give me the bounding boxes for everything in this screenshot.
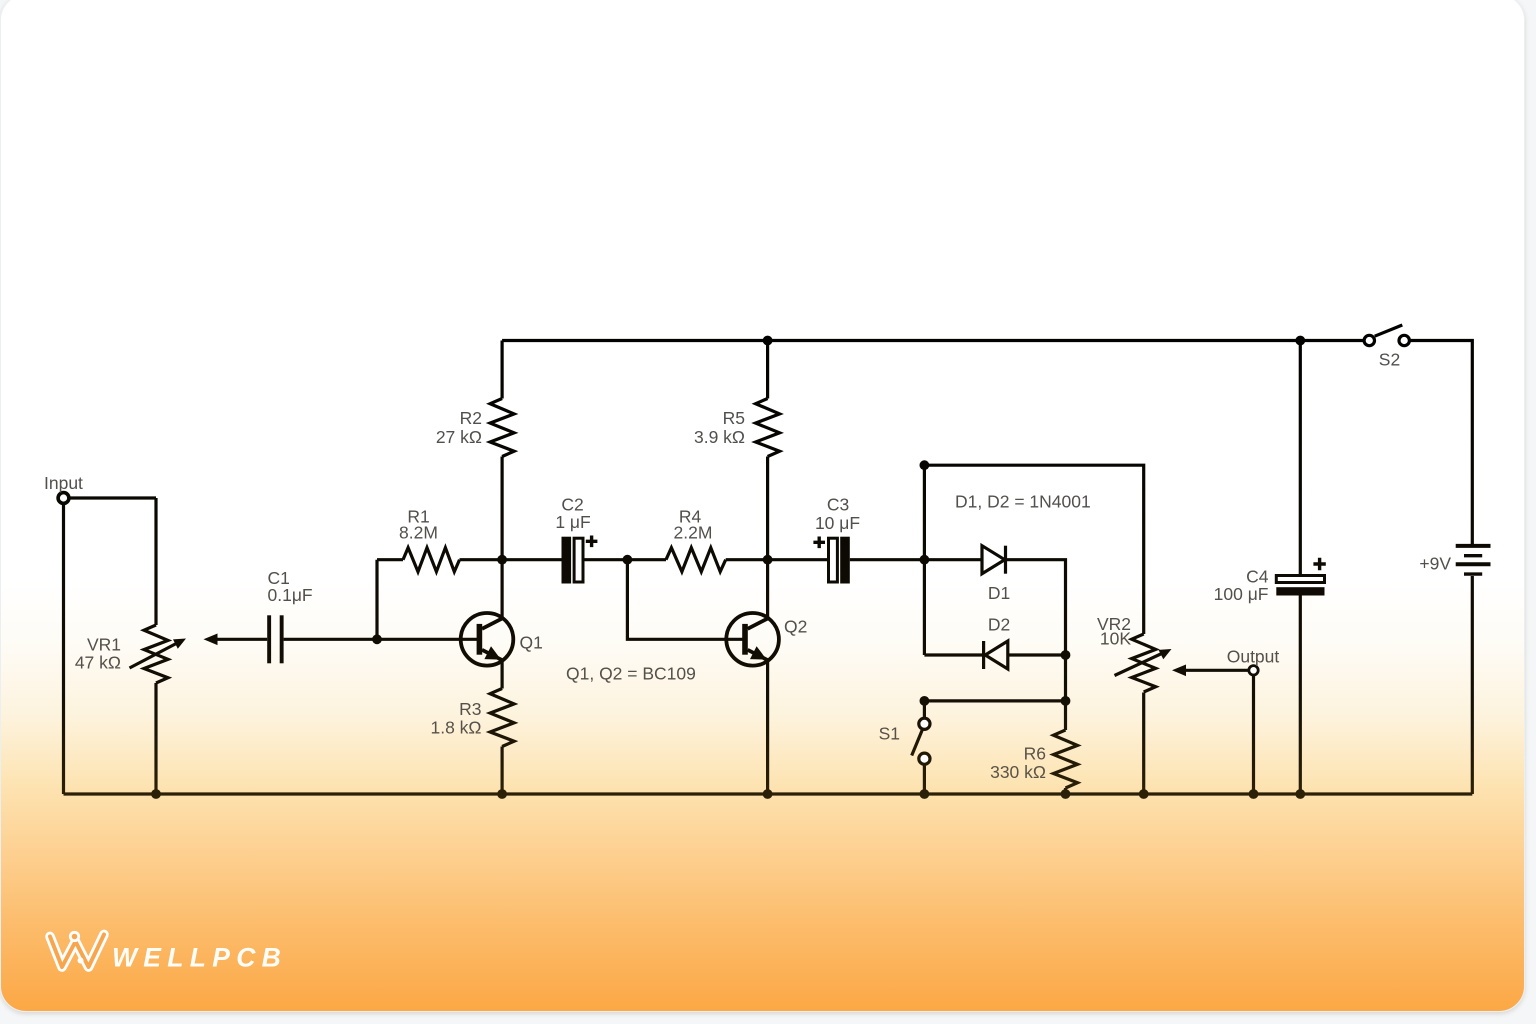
- svg-text:Q1: Q1: [520, 633, 543, 653]
- capacitor C2: [555, 495, 597, 584]
- wire node to Q1 collector: [501, 560, 504, 619]
- WellPCB logo text: [112, 943, 287, 973]
- label D1 D2 type: [955, 492, 1091, 512]
- node S1 top: [920, 696, 930, 706]
- wire C1 to Q1 base: [284, 638, 477, 641]
- wire input down left side: [62, 504, 65, 794]
- resistor R3: [430, 689, 514, 795]
- svg-text:Output: Output: [1227, 647, 1280, 667]
- capacitor C1: [267, 568, 312, 663]
- node R4 / R5 / C3: [763, 555, 773, 565]
- wire C4 to rail: [1299, 596, 1302, 795]
- node R1 / R2 / C2: [497, 555, 507, 565]
- capacitor C3: [813, 495, 860, 584]
- svg-text:R3: R3: [459, 699, 481, 719]
- switch S2: [1364, 325, 1409, 370]
- node S1 bottom: [920, 789, 930, 799]
- node S1 row right: [1061, 696, 1071, 706]
- wire node to Q2 collector: [766, 560, 769, 619]
- svg-text:0.1μF: 0.1μF: [268, 585, 313, 605]
- svg-text:D2: D2: [988, 615, 1010, 635]
- wire top rail to C4: [1299, 341, 1302, 575]
- wire VR1 wiper to C1: [204, 634, 268, 646]
- label Q1 Q2 type: [566, 664, 696, 684]
- node C4 bottom: [1295, 789, 1305, 799]
- node Q2 emitter bottom: [763, 789, 773, 799]
- svg-text:Input: Input: [44, 473, 83, 493]
- node R3 bottom: [497, 789, 507, 799]
- wire node B down to D2: [923, 560, 926, 655]
- wire VR2 wiper to output: [1172, 665, 1249, 677]
- svg-text:2.2M: 2.2M: [674, 523, 713, 543]
- svg-text:Q1, Q2 = BC109: Q1, Q2 = BC109: [566, 664, 696, 684]
- node VR2 bottom: [1139, 789, 1149, 799]
- WellPCB logo mark: [50, 932, 104, 967]
- potentiometer VR2: [1097, 614, 1172, 794]
- capacitor C4: [1214, 558, 1326, 604]
- wire C3 to node B: [850, 558, 925, 561]
- transistor Q1: [461, 613, 543, 666]
- svg-text:R5: R5: [723, 408, 745, 428]
- input terminal: [44, 473, 83, 503]
- svg-text:47 kΩ: 47 kΩ: [75, 653, 121, 673]
- transistor Q2: [726, 613, 807, 666]
- wire battery to ground rail: [1471, 576, 1474, 794]
- output terminal: [1227, 647, 1280, 676]
- svg-text:S2: S2: [1379, 350, 1400, 370]
- node A (Q2 base node): [623, 555, 633, 565]
- wire Q2 emitter to rail: [766, 660, 769, 794]
- svg-text:WELLPCB: WELLPCB: [112, 943, 287, 973]
- wire top rail: [502, 339, 1364, 342]
- svg-text:R6: R6: [1024, 744, 1046, 764]
- svg-text:100 μF: 100 μF: [1214, 584, 1269, 604]
- svg-text:1.8 kΩ: 1.8 kΩ: [430, 718, 481, 738]
- svg-text:Q2: Q2: [784, 617, 807, 637]
- svg-text:C3: C3: [827, 495, 849, 515]
- wire D1 to right corner: [1006, 560, 1066, 655]
- svg-text:10 μF: 10 μF: [815, 513, 860, 533]
- wire node to C3: [768, 558, 827, 561]
- wire node A to Q2 base: [627, 560, 742, 640]
- svg-text:+9V: +9V: [1419, 554, 1451, 574]
- wire node B up to VR2 top: [924, 465, 1143, 634]
- potentiometer VR1: [75, 498, 186, 794]
- wire S2 to battery: [1409, 341, 1472, 545]
- node R6 bottom: [1061, 789, 1071, 799]
- diode D2: [924, 615, 1065, 670]
- node Q1 base / R1: [372, 634, 382, 644]
- node top rail / R5: [763, 336, 773, 346]
- svg-text:3.9 kΩ: 3.9 kΩ: [694, 427, 745, 447]
- svg-text:10K: 10K: [1100, 629, 1131, 649]
- resistor R4: [627, 507, 767, 572]
- wire output down to rail: [1252, 675, 1255, 794]
- node VR1 bottom: [151, 789, 161, 799]
- diode D1: [924, 546, 1010, 603]
- resistor R5: [694, 341, 780, 560]
- switch S1: [879, 701, 930, 794]
- resistor R6: [990, 701, 1077, 794]
- svg-text:27 kΩ: 27 kΩ: [436, 427, 482, 447]
- wire node to C2: [502, 558, 561, 561]
- svg-text:D1: D1: [988, 583, 1010, 603]
- svg-text:D1, D2 = 1N4001: D1, D2 = 1N4001: [955, 492, 1091, 512]
- node B (diode network left): [920, 555, 930, 565]
- svg-text:8.2M: 8.2M: [399, 523, 438, 543]
- svg-text:R2: R2: [460, 408, 482, 428]
- node top rail / C4: [1295, 336, 1305, 346]
- svg-text:330 kΩ: 330 kΩ: [990, 762, 1046, 782]
- wire bottom rail: [64, 792, 1473, 795]
- svg-text:VR1: VR1: [87, 635, 121, 655]
- battery +9V: [1419, 546, 1490, 574]
- resistor R2: [436, 341, 514, 560]
- wire input to VR1 top: [69, 496, 156, 499]
- wire Q1 emitter to R3: [501, 660, 504, 689]
- wire diode corner down: [1064, 655, 1067, 701]
- wire C2 to node A: [585, 558, 628, 561]
- svg-text:1 μF: 1 μF: [555, 512, 590, 532]
- svg-text:S1: S1: [879, 724, 900, 744]
- resistor R1: [377, 507, 502, 640]
- node output bottom: [1249, 789, 1259, 799]
- node diode top corner: [920, 460, 930, 470]
- node D2 right: [1061, 650, 1071, 660]
- wire S1 row: [924, 699, 1065, 702]
